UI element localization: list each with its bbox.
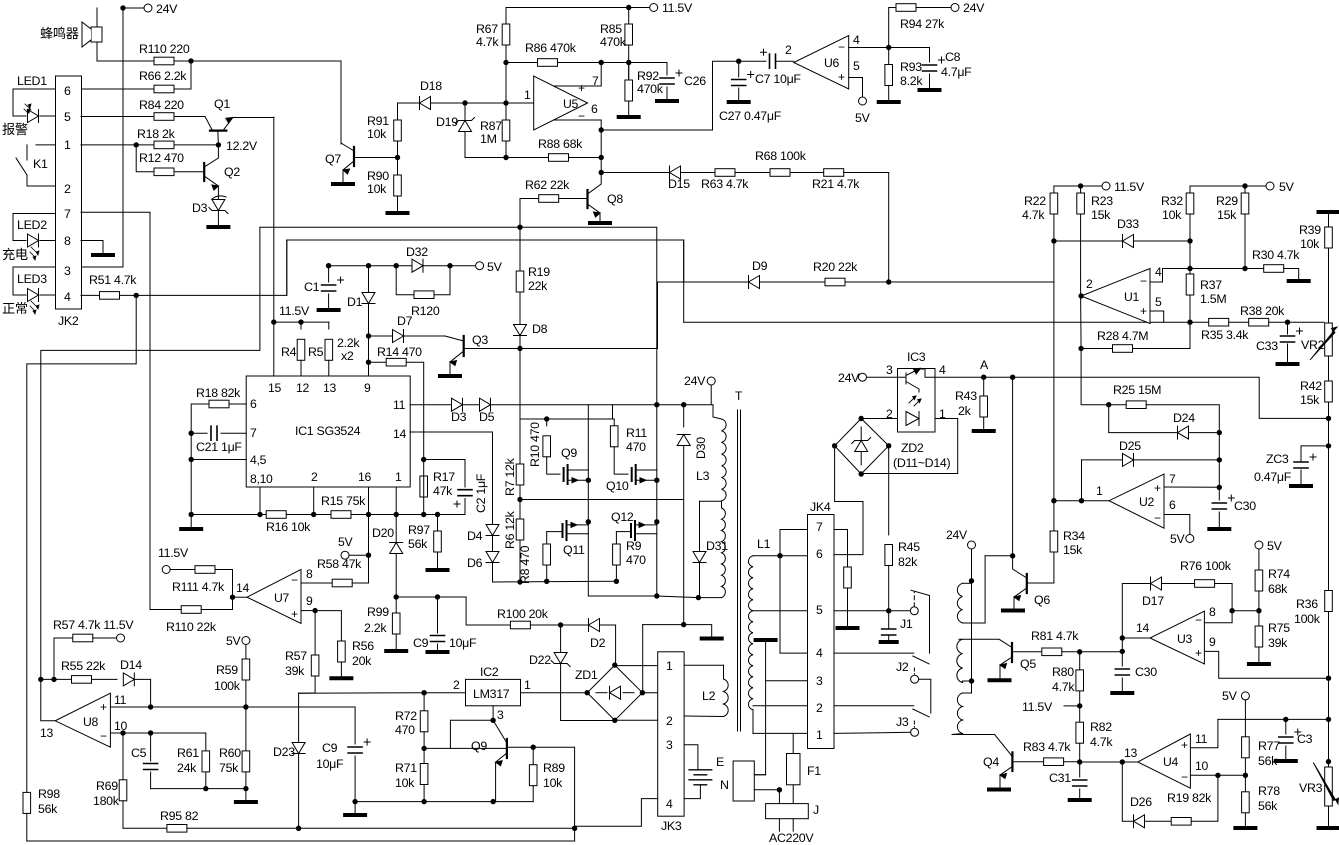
svg-text:C9: C9: [413, 636, 429, 650]
svg-text:2: 2: [64, 182, 71, 196]
svg-text:−: −: [291, 573, 298, 587]
junction R59 bottom: [243, 704, 248, 709]
wire U4 pin10: [1190, 774, 1245, 776]
svg-text:2: 2: [311, 470, 318, 484]
svg-text:1: 1: [395, 470, 402, 484]
svg-text:R69: R69: [96, 779, 118, 793]
junction R100/D22: [558, 622, 563, 627]
junction R42 bottom: [1326, 416, 1331, 421]
wire IC3 pin4 to A: [935, 376, 984, 378]
ground C9b: [354, 802, 356, 814]
wire ZD1 top to JK3 pin1: [615, 664, 658, 667]
junction U5 out: [503, 100, 508, 105]
svg-text:75k: 75k: [219, 761, 239, 775]
junction R85 bottom: [626, 60, 631, 65]
svg-text:C26: C26: [684, 74, 706, 88]
connector N: [733, 761, 754, 801]
wire IC1 pin 8,10: [259, 487, 261, 515]
junction R76/R74: [1229, 608, 1234, 613]
svg-text:D15: D15: [668, 177, 690, 191]
svg-text:4.7k: 4.7k: [1022, 208, 1045, 222]
svg-text:14: 14: [393, 427, 406, 441]
svg-text:D17: D17: [1142, 594, 1164, 608]
svg-text:10k: 10k: [543, 776, 563, 790]
wire D30 bottom rail: [643, 625, 712, 637]
ground C30 U2: [1209, 527, 1229, 531]
wire JK4 pin1 tap: [753, 732, 808, 734]
svg-text:J3: J3: [896, 715, 909, 729]
svg-text:2.2k: 2.2k: [337, 336, 360, 350]
svg-text:R30 4.7k: R30 4.7k: [1252, 248, 1300, 262]
svg-text:R28 4.7M: R28 4.7M: [1097, 329, 1148, 343]
svg-text:D3: D3: [451, 410, 467, 424]
svg-text:R15 75k: R15 75k: [321, 494, 366, 508]
relay coil J1: [957, 583, 962, 623]
op-amp U7: [247, 569, 301, 623]
wire C5 R61 R60 rail: [151, 788, 246, 790]
wire to Q7 collector: [191, 61, 341, 144]
junction D24 right: [1217, 430, 1222, 435]
junction U1 pin4 node: [1187, 266, 1192, 271]
wire ZD1 right vertex up: [642, 625, 644, 693]
wire JK4 pin7 left: [780, 530, 808, 556]
svg-text:R56: R56: [352, 639, 374, 653]
svg-text:D30: D30: [694, 437, 708, 459]
svg-text:15k: 15k: [1217, 208, 1237, 222]
wire R14 to R17: [406, 362, 424, 459]
ground VR3: [1319, 826, 1339, 830]
svg-text:10: 10: [1195, 759, 1208, 773]
svg-text:5V: 5V: [226, 634, 241, 648]
svg-text:R88 68k: R88 68k: [538, 137, 583, 151]
svg-text:x2: x2: [341, 349, 354, 363]
wire IC2 pin1 to ZD1: [521, 692, 588, 694]
svg-text:−: −: [100, 729, 107, 743]
junction R82 bottom: [1077, 759, 1082, 764]
ground Q3: [440, 374, 460, 378]
svg-text:R63 4.7k: R63 4.7k: [701, 177, 749, 191]
svg-text:R85: R85: [600, 22, 622, 36]
svg-text:R42: R42: [1300, 379, 1322, 393]
svg-text:1M: 1M: [480, 132, 497, 146]
wire U5 pin7: [554, 63, 602, 87]
wire U8 output: [41, 679, 55, 720]
svg-text:R45: R45: [898, 540, 920, 554]
svg-text:11.5V: 11.5V: [279, 304, 310, 318]
svg-text:C9: C9: [322, 741, 338, 755]
svg-text:12.2V: 12.2V: [226, 139, 258, 153]
svg-text:D18: D18: [420, 79, 442, 93]
wire y238 row: [286, 240, 288, 295]
svg-text:ZD2: ZD2: [901, 441, 924, 455]
junction R95/D23: [296, 826, 301, 831]
svg-text:24V: 24V: [684, 374, 706, 388]
connector JK2: [56, 76, 82, 309]
junction U6 pin4 node: [886, 45, 891, 50]
svg-text:13: 13: [1124, 746, 1137, 760]
junction R19 top: [517, 225, 522, 230]
ground R93: [879, 100, 899, 104]
wire IC2 pin3: [492, 706, 494, 721]
svg-text:LM317: LM317: [473, 687, 510, 701]
svg-text:5V: 5V: [855, 111, 871, 125]
ground C8: [920, 88, 940, 92]
terminal 24V top-left: [123, 7, 148, 9]
IC IC1 SG3524: [246, 376, 410, 487]
svg-text:F1: F1: [807, 764, 821, 778]
svg-text:14: 14: [1136, 621, 1149, 635]
svg-text:10μF: 10μF: [316, 757, 344, 771]
svg-text:R58 47k: R58 47k: [317, 557, 362, 571]
junction pin8,10: [257, 512, 262, 517]
svg-text:24V: 24V: [156, 2, 178, 16]
svg-text:JK2: JK2: [58, 314, 79, 328]
svg-text:JK4: JK4: [810, 500, 831, 514]
junction R22 bottom: [1051, 238, 1056, 243]
svg-text:U5: U5: [563, 97, 579, 111]
svg-text:D7: D7: [397, 314, 413, 328]
ground R39 top: [1319, 210, 1339, 214]
svg-text:8: 8: [1209, 605, 1216, 619]
svg-text:C3: C3: [1297, 732, 1313, 746]
junction relay 24V: [969, 578, 974, 583]
svg-text:R25 15M: R25 15M: [1113, 383, 1161, 397]
op-amp U1: [1081, 269, 1150, 324]
svg-text:R83 4.7k: R83 4.7k: [1023, 740, 1071, 754]
svg-text:7: 7: [250, 426, 257, 440]
svg-text:U6: U6: [824, 56, 840, 70]
svg-text:5: 5: [1155, 295, 1162, 309]
svg-text:Q7: Q7: [325, 152, 341, 166]
junction R16 right / IC1 pin2: [311, 512, 316, 517]
svg-text:T: T: [735, 389, 743, 403]
svg-text:2k: 2k: [958, 404, 972, 418]
svg-text:R59: R59: [216, 663, 238, 677]
junction IC2 pin3: [490, 718, 495, 723]
svg-text:10μF: 10μF: [449, 636, 477, 650]
junction U3 pin9 right: [1326, 676, 1331, 681]
svg-text:R97: R97: [408, 523, 430, 537]
svg-text:U3: U3: [1177, 632, 1193, 646]
svg-text:R95 82: R95 82: [160, 809, 199, 823]
svg-text:U8: U8: [83, 715, 99, 729]
svg-text:R39: R39: [1299, 223, 1321, 237]
svg-text:R12 470: R12 470: [139, 151, 184, 165]
relay coil J2: [957, 639, 963, 682]
wire IC3 pin1 to ZD2 bottom: [861, 419, 958, 474]
svg-text:−: −: [1140, 274, 1147, 288]
junction R38 right: [1285, 320, 1290, 325]
wire 5V rail U4: [1218, 718, 1329, 720]
ground R99: [386, 649, 406, 653]
junction R72 bottom: [421, 746, 426, 751]
wire U1 pin5: [1150, 311, 1190, 322]
junction relay mid: [969, 678, 974, 683]
svg-text:D22: D22: [529, 653, 551, 667]
svg-text:Q12: Q12: [611, 510, 634, 524]
ground Q6: [1003, 609, 1023, 613]
junction C1 top: [326, 263, 331, 268]
op-amp U4: [1138, 734, 1191, 788]
junction R55 left: [38, 677, 43, 682]
ground JK4 resistor: [838, 626, 858, 630]
junction U2 out node: [1079, 498, 1084, 503]
junction D30 bottom: [681, 622, 686, 627]
svg-text:Q3: Q3: [472, 333, 488, 347]
svg-text:8,10: 8,10: [250, 472, 273, 486]
junction C9b bottom: [352, 799, 357, 804]
svg-text:D19: D19: [436, 115, 458, 129]
junction 11.5V rail IC1: [271, 319, 276, 324]
junction R51: [134, 293, 139, 298]
svg-text:10k: 10k: [367, 182, 387, 196]
svg-text:J2: J2: [896, 660, 909, 674]
wire y322 long row: [684, 321, 1164, 323]
junction D19 top: [462, 100, 467, 105]
wire N to JK4 pin3 col: [754, 774, 765, 776]
svg-text:R57 4.7k 11.5V: R57 4.7k 11.5V: [53, 618, 134, 632]
junction R61 bottom: [203, 786, 208, 791]
wire IC1 pin14 to D4: [410, 431, 493, 433]
svg-text:Q2: Q2: [224, 165, 240, 179]
svg-text:11: 11: [1195, 732, 1208, 746]
wire R82 to U4: [1080, 761, 1138, 763]
svg-text:C30: C30: [1135, 665, 1157, 679]
svg-text:24V: 24V: [838, 371, 860, 385]
svg-text:R14 470: R14 470: [377, 345, 422, 359]
wire 24V column bridge: [656, 405, 658, 596]
svg-text:R80: R80: [1052, 665, 1074, 679]
svg-text:R98: R98: [38, 787, 60, 801]
svg-text:12: 12: [296, 381, 309, 395]
junction 12.2V node: [216, 142, 221, 147]
svg-text:D2: D2: [590, 636, 606, 650]
junction C9 top: [435, 594, 440, 599]
terminal 5V U6: [859, 97, 867, 105]
svg-text:D14: D14: [120, 658, 142, 672]
svg-text:470k: 470k: [600, 35, 627, 49]
wire IC2 pin2: [424, 692, 465, 694]
svg-text:R19 82k: R19 82k: [1167, 791, 1212, 805]
svg-text:R61: R61: [177, 746, 199, 760]
relay coil J3: [957, 693, 962, 734]
junction R97 top: [435, 512, 440, 517]
junction C3 top: [1283, 717, 1288, 722]
svg-text:R34: R34: [1063, 529, 1085, 543]
svg-text:C33: C33: [1256, 339, 1278, 353]
terminal 24V relay: [968, 541, 976, 549]
svg-text:5V: 5V: [1222, 689, 1238, 703]
svg-text:R92: R92: [637, 69, 659, 83]
svg-text:11.5V: 11.5V: [1114, 180, 1145, 194]
svg-text:LED3: LED3: [17, 272, 47, 286]
terminal 5V U2: [1186, 535, 1194, 543]
svg-text:R99: R99: [367, 605, 389, 619]
svg-text:AC220V: AC220V: [769, 831, 814, 845]
svg-text:11.5V: 11.5V: [158, 546, 189, 560]
svg-text:R37: R37: [1200, 278, 1222, 292]
svg-text:15k: 15k: [1300, 393, 1320, 407]
terminal 5V pin16: [368, 515, 370, 556]
svg-text:Q5: Q5: [1020, 657, 1036, 671]
svg-text:1.5M: 1.5M: [1200, 292, 1226, 306]
svg-text:Q8: Q8: [607, 192, 623, 206]
wire R51 row to corner: [136, 240, 287, 295]
svg-text:5: 5: [853, 59, 860, 73]
svg-text:8: 8: [306, 567, 313, 581]
wire JK4 pin4 right: [834, 652, 914, 654]
svg-text:15k: 15k: [1063, 543, 1083, 557]
connector JK4: [808, 515, 835, 749]
wire U3 pin8: [1204, 611, 1232, 623]
svg-text:6: 6: [1169, 498, 1176, 512]
terminal 5V D32: [476, 262, 484, 270]
wire pin3 to R72R71: [424, 720, 493, 748]
svg-text:R55 22k: R55 22k: [61, 659, 106, 673]
ground R60: [236, 800, 256, 804]
junction source rail: [654, 593, 659, 598]
transformer T primary winding: [722, 419, 727, 501]
svg-text:C7 10μF: C7 10μF: [755, 72, 801, 86]
svg-text:R22: R22: [1024, 194, 1046, 208]
wire ZD1 right to JK3: [642, 692, 657, 694]
svg-text:R111 4.7k: R111 4.7k: [172, 580, 225, 594]
svg-text:470: 470: [395, 723, 415, 737]
junction 11.5V Q4Q5: [1077, 703, 1082, 708]
ground R56: [331, 676, 351, 680]
ground C26: [657, 99, 677, 103]
svg-text:+: +: [1181, 738, 1188, 752]
svg-text:10: 10: [114, 719, 127, 733]
svg-text:正常: 正常: [2, 301, 28, 316]
svg-text:R62 22k: R62 22k: [525, 178, 570, 192]
svg-text:4: 4: [64, 290, 71, 304]
junction pin11/D14: [148, 704, 153, 709]
wire JK4 pin2 tap: [753, 705, 808, 707]
svg-text:1: 1: [816, 728, 823, 742]
junction Q7 base node: [395, 155, 400, 160]
svg-text:R68 100k: R68 100k: [755, 149, 807, 163]
svg-text:Q10: Q10: [606, 479, 629, 493]
ground R90: [388, 211, 408, 215]
junction U7 pin14: [230, 595, 235, 600]
svg-text:2: 2: [453, 678, 460, 692]
wire ZD2 left to JK4 pin6: [834, 446, 863, 555]
svg-text:R38 20k: R38 20k: [1240, 304, 1285, 318]
ground C31: [1070, 798, 1090, 802]
junction 24V: [120, 5, 125, 10]
junction D20 bottom / R99 top: [394, 594, 399, 599]
svg-text:(D11~D14): (D11~D14): [893, 456, 951, 470]
svg-text:R77: R77: [1258, 739, 1280, 753]
junction C5 top: [120, 730, 125, 735]
IC IC2 LM317: [466, 679, 521, 705]
ground C33: [1278, 362, 1298, 366]
svg-text:R90: R90: [367, 169, 389, 183]
svg-text:100k: 100k: [1294, 612, 1321, 626]
junction U4 pin13: [1120, 759, 1125, 764]
relay contact J1: [910, 607, 918, 615]
svg-text:5: 5: [816, 603, 823, 617]
svg-text:E: E: [716, 755, 724, 769]
svg-text:R110 220: R110 220: [139, 42, 190, 56]
wire 11.5V rail: [274, 321, 329, 323]
svg-text:470: 470: [626, 440, 646, 454]
svg-text:4: 4: [816, 646, 823, 660]
wire bottom gate rail: [493, 580, 617, 583]
wire bottom rail: [27, 840, 575, 842]
svg-text:3: 3: [64, 264, 71, 278]
svg-text:IC3: IC3: [907, 350, 926, 364]
terminal 5V R74: [1255, 541, 1263, 549]
wire U1 pin4: [1150, 269, 1190, 283]
wire U2 pin6: [1164, 515, 1190, 535]
svg-text:R11: R11: [626, 426, 647, 440]
svg-text:11: 11: [114, 693, 127, 707]
svg-text:11.5V: 11.5V: [1022, 700, 1053, 714]
svg-text:R91: R91: [367, 114, 389, 128]
svg-text:16: 16: [358, 470, 371, 484]
svg-text:C31: C31: [1049, 771, 1071, 785]
connector J: [766, 804, 809, 819]
svg-text:JK3: JK3: [661, 819, 682, 833]
svg-text:9: 9: [306, 594, 313, 608]
wire Q1 collector 11.5V: [273, 117, 275, 376]
op-amp U3: [1150, 611, 1204, 664]
terminal 5V U4: [1241, 692, 1249, 700]
junction R67 bottom: [503, 60, 508, 65]
svg-text:J1: J1: [900, 617, 913, 631]
svg-text:5V: 5V: [338, 535, 353, 549]
junction gate rail: [544, 416, 549, 421]
resistor JK4 pullup: [844, 567, 852, 588]
terminal 24V right: [951, 4, 959, 12]
svg-text:D3: D3: [192, 201, 208, 215]
wire y240 row: [287, 239, 684, 241]
svg-text:5V: 5V: [1279, 180, 1295, 194]
svg-text:13: 13: [323, 381, 336, 395]
ground R92: [619, 115, 639, 119]
svg-text:R86 470k: R86 470k: [525, 41, 577, 55]
svg-text:2: 2: [816, 701, 823, 715]
junction R88 right: [599, 155, 604, 160]
svg-text:C5: C5: [131, 746, 147, 760]
svg-text:R100 20k: R100 20k: [497, 607, 549, 621]
svg-text:R8 470: R8 470: [518, 545, 532, 584]
wire R89 node right: [533, 747, 574, 841]
svg-text:−: −: [1195, 613, 1202, 627]
svg-text:9: 9: [1209, 635, 1216, 649]
svg-text:C2 1μF: C2 1μF: [474, 473, 488, 513]
svg-text:D5: D5: [479, 410, 495, 424]
svg-text:蜂鸣器: 蜂鸣器: [40, 25, 79, 41]
svg-text:9: 9: [364, 381, 371, 395]
junction R45 bottom / J1: [886, 608, 891, 613]
wire source rail to coil: [657, 596, 699, 598]
svg-text:D1: D1: [347, 295, 363, 309]
op-amp U6: [794, 36, 849, 90]
svg-text:R87: R87: [480, 119, 502, 133]
svg-text:J: J: [813, 803, 819, 817]
svg-text:8: 8: [64, 234, 71, 248]
svg-text:U1: U1: [1124, 290, 1140, 304]
svg-text:11: 11: [393, 398, 406, 412]
svg-text:10k: 10k: [1300, 237, 1320, 251]
svg-text:C8: C8: [945, 50, 961, 64]
wire JK4 pin5 tap: [753, 610, 808, 612]
junction J top: [777, 787, 782, 792]
wire y322 row left: [683, 240, 685, 322]
